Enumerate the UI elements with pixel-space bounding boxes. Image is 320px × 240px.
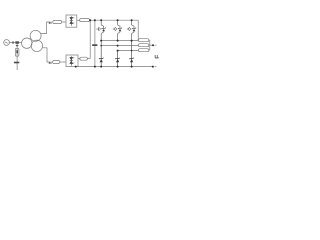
wire fuse to box1: [62, 21, 66, 23]
zener D4 lower: [99, 41, 103, 67]
capacitor C1 plates: [92, 44, 97, 46]
wire: [16, 43, 18, 70]
fuse F1 top: [53, 20, 62, 23]
wire rail corner down to fuse row: [137, 20, 139, 40]
wire box2 to fuse3: [78, 58, 80, 60]
wire fuse2 to box2: [60, 61, 66, 63]
capacitor C1 vertical wire: [94, 20, 96, 66]
transformer T1 primary: [22, 38, 32, 48]
wire fuse3 up to rail: [87, 58, 90, 60]
branch 3: cap C4 + zener D3: [127, 20, 136, 40]
junction dots bottom rail: [75, 66, 77, 68]
junction dots mid rails: [100, 40, 102, 42]
zener D5 lower: [115, 51, 119, 67]
mid rail 2: [101, 45, 138, 47]
branch 1: cap C2 + zener D1: [96, 20, 105, 40]
background: [0, 0, 160, 90]
output wire plus: [150, 44, 153, 46]
wire box1 to resistor: [77, 19, 80, 21]
mid rail 1: [101, 40, 138, 42]
resistor R1: [80, 19, 90, 22]
mid rail 3: [118, 50, 139, 52]
small connector near source: [12, 22, 51, 64]
branch 2: cap C3 + zener D2: [113, 20, 122, 40]
transformer T1 secondary 1: [30, 30, 41, 41]
connector ticks bottom path: [49, 62, 50, 64]
surge protector U2 box: [66, 55, 78, 67]
output dash minus: [155, 66, 157, 68]
wire source to transformer: [10, 42, 22, 44]
fuse F4 output row 1: [138, 39, 149, 42]
AC source G1: [4, 40, 10, 46]
vertical wire from rail to bottom fuse: [89, 20, 91, 58]
bottom rail: [76, 66, 153, 68]
MOV plate: [14, 62, 19, 64]
tick under source branch: [16, 45, 18, 46]
fuse F3 element: [16, 50, 18, 53]
fuse F5 output row 2: [138, 44, 149, 47]
fuse F6 output row 3: [138, 49, 149, 52]
right bus: [149, 40, 151, 51]
TVS symbol in box U2: [70, 56, 75, 65]
output terminal dots: [152, 44, 154, 46]
junction dots top rail: [75, 19, 154, 67]
transformer T1 secondary 2: [31, 40, 42, 51]
fuse F3 body: [15, 48, 19, 56]
TVS symbol in box U1: [70, 16, 75, 25]
fuse F2 bottom: [53, 61, 60, 64]
zener D6 lower: [129, 41, 133, 67]
output dash plus: [155, 44, 157, 46]
top rail: [90, 19, 139, 21]
label Uo: [155, 55, 159, 58]
fuse F7 body: [80, 57, 88, 60]
connector ticks top path: [49, 22, 50, 24]
wire secondary2 to bottom path: [42, 48, 49, 62]
wire secondary1 to top path: [41, 22, 49, 34]
surge protector U1 box: [66, 15, 77, 27]
